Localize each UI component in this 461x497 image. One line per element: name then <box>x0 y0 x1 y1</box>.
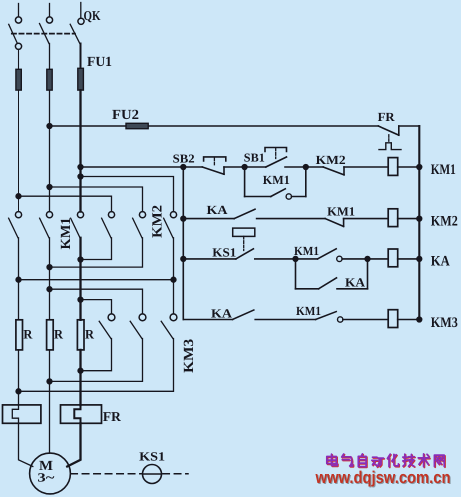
control row3: speed contact KS1 <box>183 228 295 259</box>
svg-text:KS1: KS1 <box>212 246 236 260</box>
wire contact6 return to L1 net <box>19 238 174 280</box>
node KM3 pole2 return join <box>47 379 52 384</box>
wire row3 to coil <box>368 258 389 260</box>
thermal relay FR heater box 1 <box>3 405 41 423</box>
svg-text:FR: FR <box>378 110 396 124</box>
node KM3 pole2 tap on L2 <box>47 287 52 292</box>
svg-text:FU1: FU1 <box>87 55 112 70</box>
svg-text:KA: KA <box>211 307 232 321</box>
wire right rail <box>418 126 420 320</box>
thermal relay FR heater box 2 <box>61 405 102 423</box>
coil KM3 <box>388 310 398 328</box>
wire contact4 return to L3 net <box>81 238 112 260</box>
watermark chinese line <box>327 454 445 468</box>
wire L3 fuse to contact (thick) <box>79 90 81 212</box>
resistor R1 <box>16 320 23 350</box>
wire feed2 to KM2 pole2 <box>50 187 143 212</box>
wire through KS1 <box>143 473 161 475</box>
wire L1 to fuse <box>18 50 20 70</box>
contactor KM1 main pole 1 <box>9 212 22 238</box>
contact KM1 aux NC in row2 <box>325 219 388 227</box>
svg-text:KA: KA <box>207 203 228 217</box>
svg-text:QK: QK <box>84 8 101 23</box>
node rail row2 left <box>181 216 186 221</box>
contactor KM1 main pole 3 <box>71 212 84 238</box>
wire coil KA to rail <box>398 258 420 260</box>
contactor KM2 main pole 2 <box>133 212 146 238</box>
contact KA aux NO parallel in row3 <box>296 259 368 289</box>
node rail row2 <box>417 216 422 221</box>
wire FR1 to motor <box>19 423 33 466</box>
coil KM2 <box>388 209 398 227</box>
wire L3 to fuse <box>80 44 82 69</box>
svg-text:3~: 3~ <box>37 470 55 484</box>
switch QK pole 2 <box>40 17 53 44</box>
node row1 tap on L3 <box>78 165 83 170</box>
wire control left rail <box>182 167 184 320</box>
fuse FU1 pole 2 <box>47 69 52 90</box>
wire coil KM2 to rail <box>398 218 420 220</box>
wire contact3 down to R3 (thick) <box>79 238 81 320</box>
wire L1 top stem <box>18 4 20 17</box>
svg-text:KM2: KM2 <box>431 213 458 229</box>
contactor KM3 pole 3 <box>161 314 177 339</box>
svg-text:KM1: KM1 <box>294 244 319 258</box>
node KM3 pole3 return join <box>16 389 21 394</box>
node rail row3 <box>417 256 422 261</box>
contact KM1 aux NO in row3 <box>296 249 368 262</box>
node SB1 right junction <box>303 165 308 170</box>
wire R1 to FR <box>18 350 20 405</box>
wire SB2 to SB1 <box>224 166 245 168</box>
node SB1 left junction <box>242 165 247 170</box>
wire KM3 pole1 return <box>81 339 112 371</box>
svg-text:www.dqjsw.com.cn: www.dqjsw.com.cn <box>315 468 451 487</box>
node feed2 tap on L2 <box>47 185 52 190</box>
speed relay KS1 body <box>143 465 162 484</box>
wire KM3 pole3 feed <box>173 280 175 314</box>
svg-text:SB1: SB1 <box>244 151 265 165</box>
node rail row4 <box>417 317 422 322</box>
svg-text:KM3: KM3 <box>182 339 197 373</box>
node feed1 tap on L1 <box>16 194 21 199</box>
svg-text:FR: FR <box>103 409 121 424</box>
wire L2 to fuse <box>49 44 51 70</box>
wire R3 to FR (thick) <box>79 350 81 405</box>
pushbutton SB1 (NO) <box>245 148 306 168</box>
svg-text:KS1: KS1 <box>139 449 165 463</box>
motor M 3~ <box>30 453 71 494</box>
pushbutton SB2 (NC) <box>202 157 226 174</box>
contactor KM3 pole 1 <box>99 314 115 339</box>
switch QK pole 1 <box>9 17 22 50</box>
wire L2 top stem <box>49 4 51 17</box>
coil KM1 <box>388 158 398 176</box>
node row3 right junction <box>365 256 370 261</box>
svg-text:R: R <box>54 326 64 341</box>
svg-text:R: R <box>85 326 95 341</box>
contactor KM1 main pole 2 <box>40 212 53 238</box>
svg-text:KA: KA <box>431 254 450 270</box>
node contact4 join <box>78 257 83 262</box>
wire coil KM3 to rail <box>398 319 420 321</box>
svg-text:KM1: KM1 <box>327 205 355 219</box>
svg-text:KM2: KM2 <box>316 153 346 167</box>
svg-text:KA: KA <box>345 275 365 289</box>
node rail row1 <box>417 165 422 170</box>
node rail row3 left <box>181 256 186 261</box>
contactor KM2 main pole 1 <box>102 212 115 238</box>
wire contact2 down to R2 <box>49 238 51 320</box>
resistor R2 <box>47 320 54 350</box>
svg-text:SB2: SB2 <box>173 152 195 166</box>
node contact5 join <box>47 265 52 270</box>
svg-text:KM2: KM2 <box>151 205 166 238</box>
fuse FU1 pole 1 <box>16 69 21 90</box>
wire KM3 pole3 return <box>19 339 174 392</box>
wire KM3 pole2 feed <box>50 289 143 314</box>
control row4: contact KA NO <box>183 310 315 320</box>
node FU2 tap on L2 <box>47 124 52 129</box>
contact KM1 aux NO in row4 <box>316 312 389 323</box>
contact KM2 aux NC in row1 <box>306 167 388 175</box>
wire contact1 down to R1 <box>18 238 20 320</box>
wire L2 fuse to contact <box>49 90 51 212</box>
wire feed1 to KM2 pole1 <box>19 196 112 211</box>
wire FR2 to motor (thick) <box>67 423 80 466</box>
switch QK pole 3 <box>70 18 84 43</box>
wire KM3 pole1 feed <box>81 300 112 314</box>
shaft dashed link motor to KS1 <box>71 473 188 475</box>
control row1 wire from L3 to SB2 <box>81 166 203 168</box>
contactor KM3 pole 2 <box>130 314 146 339</box>
wire KM3 pole2 return <box>50 339 143 382</box>
svg-text:KM3: KM3 <box>431 315 458 331</box>
node row3 KM1 left junction <box>293 256 298 261</box>
svg-text:KM1: KM1 <box>59 218 74 250</box>
contactor KM2 main pole 3 <box>164 212 177 238</box>
svg-text:KM1: KM1 <box>431 162 456 178</box>
node feed3 tap on L3 <box>78 174 83 179</box>
wire R2 down to motor <box>49 350 51 453</box>
svg-text:KM1: KM1 <box>296 304 321 318</box>
svg-text:R: R <box>23 326 33 341</box>
control row2: contact KA NO <box>183 209 325 218</box>
wire coil KM1 to rail <box>398 166 420 168</box>
wire L1 fuse to contact <box>18 90 20 212</box>
wire L3 top stem <box>80 3 82 18</box>
fuse FU1 pole 3 <box>78 68 84 90</box>
wire FU2 feeder <box>50 125 379 127</box>
node control rail top <box>181 165 186 170</box>
contact KM1 aux NO parallel with SB1 <box>245 167 306 199</box>
node KM3 pole1 return join <box>78 368 83 373</box>
QK linkage dashed bar <box>12 33 75 35</box>
svg-text:KM1: KM1 <box>263 173 290 187</box>
fuse FU2 <box>126 123 148 128</box>
coil KA <box>388 249 398 267</box>
svg-text:FU2: FU2 <box>112 108 139 123</box>
wire contact5 return to L2 net <box>50 238 143 267</box>
wire feed3 to KM2 pole3 <box>81 177 174 212</box>
node KM3 pole3 tap <box>171 277 176 282</box>
resistor R3 <box>77 320 84 350</box>
node KM3 pole1 tap on L3 <box>78 297 83 302</box>
node contact6 join <box>16 277 21 282</box>
thermal contact FR (NC) top right <box>378 126 419 150</box>
